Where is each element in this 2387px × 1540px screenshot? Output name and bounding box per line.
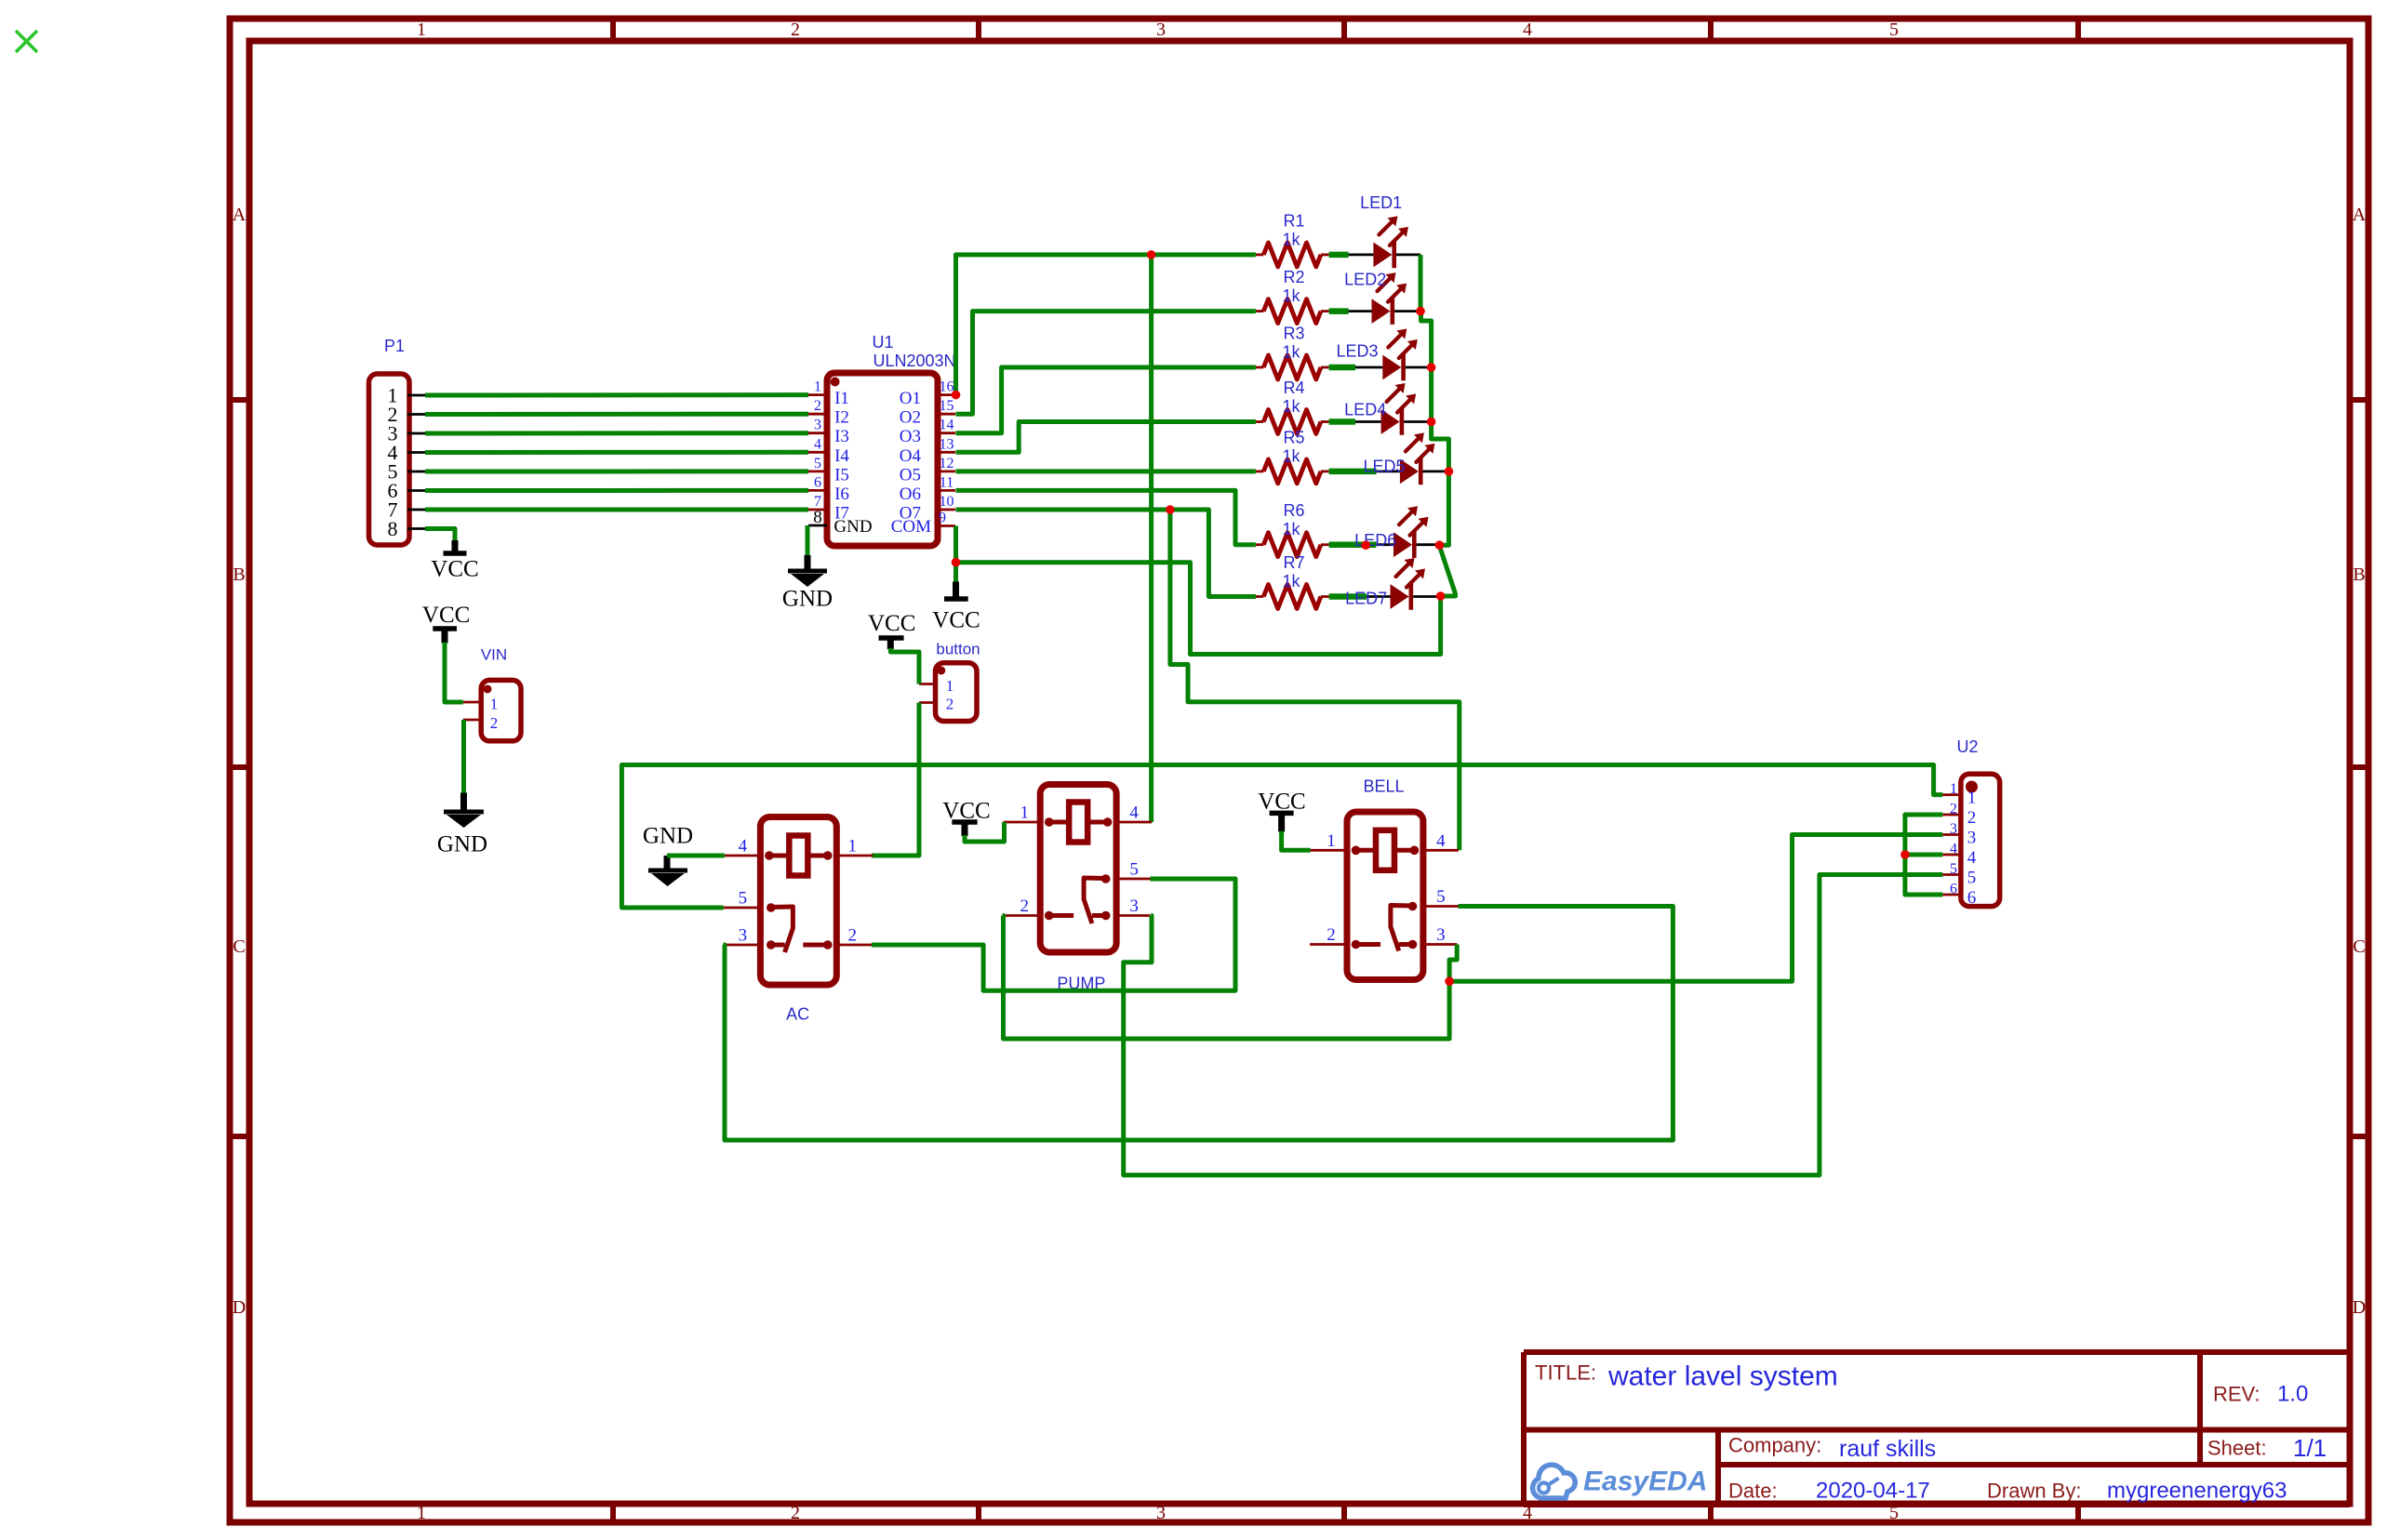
svg-text:3: 3 (1950, 821, 1957, 837)
U2 pin 6 (1942, 882, 1976, 909)
R7 label (1283, 553, 1304, 572)
svg-text:TITLE:: TITLE: (1535, 1361, 1596, 1385)
R4 value 1k (1282, 397, 1300, 416)
R4 label (1283, 378, 1304, 397)
title value 2020-04-17 (1816, 1479, 1930, 1504)
wire U2 pins 2-4-6 tie (1905, 815, 1942, 895)
wire U1.8 to GND (806, 525, 810, 556)
svg-text:3: 3 (739, 926, 748, 946)
svg-text:1: 1 (1950, 781, 1957, 797)
svg-text:1k: 1k (1282, 520, 1300, 538)
VIN pin 1 (463, 696, 498, 713)
wire LED2 to LED3 cathode (1421, 312, 1432, 367)
title field Sheet (2207, 1437, 2267, 1460)
svg-text:1k: 1k (1282, 230, 1300, 248)
resistor R2 1k (1256, 299, 1349, 324)
wire P1.8 to VCC (425, 529, 455, 542)
wire AC.3 to BELL.5 (724, 907, 1674, 1141)
svg-text:ULN2003N: ULN2003N (873, 352, 955, 370)
svg-text:I5: I5 (834, 465, 849, 485)
svg-text:water lavel system: water lavel system (1607, 1361, 1838, 1392)
LED1 (1349, 216, 1420, 268)
wire P1.3 to U1.I3 (425, 431, 808, 435)
resistor R7 1k (1256, 585, 1367, 609)
wire PUMP.3 to U2.5 (1124, 875, 1943, 1175)
VCC flag at button (868, 611, 915, 649)
column labels bottom 1-5 (417, 1503, 1899, 1523)
wire P1.1 to U1.I1 (425, 392, 808, 397)
svg-text:I1: I1 (834, 389, 849, 408)
junction node J4 (952, 558, 961, 567)
svg-text:4: 4 (1950, 842, 1957, 857)
svg-text:15: 15 (940, 398, 954, 414)
svg-text:U2: U2 (1956, 737, 1978, 756)
svg-text:5: 5 (1436, 887, 1446, 907)
svg-text:D: D (233, 1297, 246, 1318)
P1 label (384, 337, 405, 355)
connector U2 (1961, 774, 2000, 906)
svg-text:5: 5 (1129, 860, 1139, 880)
svg-text:R1: R1 (1283, 211, 1304, 230)
svg-text:A: A (2353, 205, 2367, 225)
svg-text:VCC: VCC (431, 557, 478, 582)
svg-text:O2: O2 (900, 408, 921, 428)
LED7 (1367, 558, 1441, 610)
svg-text:1k: 1k (1282, 343, 1300, 362)
svg-text:1: 1 (417, 20, 426, 40)
U1 pin 15 O2 (900, 398, 955, 428)
svg-text:D: D (2353, 1297, 2366, 1318)
wire P1.6 to U1.I6 (425, 488, 808, 493)
U2 pin 4 (1942, 842, 1976, 869)
LED4 (1355, 383, 1432, 435)
svg-text:3: 3 (1967, 829, 1977, 848)
wire COM junction to VCC (953, 563, 958, 583)
junction node J12 (1445, 976, 1454, 986)
svg-text:11: 11 (940, 474, 953, 490)
wire LED1 to LED2 cathode (1419, 255, 1423, 312)
svg-text:I4: I4 (834, 446, 849, 466)
svg-text:LED1: LED1 (1360, 193, 1402, 212)
wire P1.2 to U1.I2 (425, 412, 808, 417)
wire button.2 to AC.1 (872, 703, 919, 856)
svg-text:Company:: Company: (1728, 1434, 1821, 1457)
svg-text:1: 1 (1967, 789, 1977, 808)
svg-text:O5: O5 (900, 465, 921, 485)
svg-text:VCC: VCC (1258, 790, 1305, 815)
svg-text:O4: O4 (900, 446, 922, 466)
svg-text:U1: U1 (872, 333, 893, 352)
svg-text:3: 3 (1156, 1503, 1166, 1523)
row labels left A-D (233, 205, 247, 1318)
PUMP pins (1003, 803, 1152, 917)
wire GND to AC.4 (667, 854, 725, 858)
LED2 (1349, 272, 1421, 325)
svg-text:1: 1 (848, 837, 858, 856)
VCC flag at P1.8 (431, 540, 478, 582)
svg-text:1k: 1k (1282, 446, 1300, 465)
R1 value 1k (1282, 230, 1300, 248)
wire VCC to button.1 (890, 648, 919, 684)
wire P1.5 to U1.I5 (425, 469, 808, 473)
U1 pin 7 I7 (808, 494, 849, 524)
svg-text:5: 5 (739, 889, 748, 909)
wire junction to U2.3 (1449, 835, 1942, 982)
svg-text:3: 3 (1156, 20, 1166, 40)
wire VCC to VIN.1 (445, 643, 463, 703)
wire LED5 to LED6 cathode (1439, 471, 1448, 545)
wire O5 net: U1.12 to R5 (956, 469, 1256, 473)
U2 label (1956, 737, 1978, 756)
row tick marks right (2350, 400, 2368, 1136)
svg-text:Sheet:: Sheet: (2207, 1437, 2267, 1460)
U1 value ULN2003N (873, 352, 955, 370)
button label (936, 641, 980, 658)
svg-text:LED3: LED3 (1336, 342, 1378, 361)
BELL label (1363, 777, 1404, 796)
U2 pin 3 (1942, 821, 1976, 848)
junction node J6 (1427, 363, 1436, 372)
wire O4 net: U1.13 to R4 (956, 422, 1256, 453)
wire VCC to BELL.1 (1282, 831, 1311, 851)
wire O7 branch to BELL.4 (1170, 510, 1460, 850)
svg-text:O1: O1 (900, 389, 921, 408)
svg-text:10: 10 (940, 494, 954, 510)
svg-text:6: 6 (1967, 888, 1977, 908)
svg-text:VCC: VCC (932, 608, 980, 633)
junction node J10 (1361, 540, 1370, 550)
svg-text:3: 3 (1129, 896, 1139, 916)
svg-text:LED7: LED7 (1345, 589, 1387, 607)
svg-text:GND: GND (782, 587, 833, 612)
P1 pin 6 (388, 479, 426, 502)
IC U1 ULN2003N body (827, 373, 938, 546)
wire BELL.3 to junction (1449, 945, 1457, 982)
svg-text:2: 2 (1020, 896, 1029, 916)
connector VIN (481, 680, 521, 740)
svg-text:2: 2 (946, 696, 954, 713)
svg-text:8: 8 (813, 508, 822, 527)
svg-text:EasyEDA: EasyEDA (1583, 1467, 1707, 1497)
wire O2 net: U1.15 to R2 (956, 312, 1256, 415)
svg-text:GND: GND (833, 517, 872, 537)
svg-text:2: 2 (848, 926, 858, 946)
P1 pin 2 (388, 403, 426, 426)
svg-text:Date:: Date: (1728, 1480, 1778, 1503)
junction node J2 (1147, 250, 1156, 259)
svg-text:4: 4 (1967, 848, 1977, 868)
wire COM junction to LED7 cathode (956, 563, 1441, 655)
svg-text:4: 4 (1523, 20, 1532, 40)
P1 pin 7 (388, 498, 426, 522)
svg-text:LED2: LED2 (1344, 271, 1386, 289)
wire O3 net: U1.14 to R3 (956, 367, 1256, 433)
resistor R5 1k (1256, 459, 1377, 484)
title field Company (1728, 1434, 1821, 1457)
wire PUMP.2 to BELL.3 junction (1003, 916, 1450, 1040)
svg-text:4: 4 (739, 837, 748, 856)
svg-text:1k: 1k (1282, 572, 1300, 591)
U2 pin 2 (1942, 802, 1976, 829)
svg-text:BELL: BELL (1363, 777, 1404, 796)
AC label (786, 1005, 809, 1024)
svg-text:2: 2 (1967, 808, 1977, 828)
svg-text:14: 14 (940, 418, 954, 433)
AC pins (723, 837, 873, 946)
VCC flag at VIN (422, 603, 470, 644)
resistor R3 1k (1256, 355, 1355, 379)
button pin 1 (919, 677, 953, 695)
svg-text:5: 5 (814, 456, 821, 471)
resistor R6 1k (1256, 533, 1377, 557)
P1 pin 5 (388, 460, 426, 484)
wire O1 net: U1.16 up and to R1 (956, 255, 1256, 395)
svg-text:3: 3 (1436, 925, 1446, 945)
svg-text:VCC: VCC (868, 611, 915, 636)
svg-text:COM: COM (891, 517, 931, 537)
svg-text:1/1: 1/1 (2293, 1434, 2327, 1462)
wire LED3 to LED4 cathode (1429, 367, 1434, 422)
svg-text:6: 6 (1950, 882, 1957, 897)
svg-text:R3: R3 (1283, 325, 1304, 343)
junction node J1 (952, 391, 961, 400)
wire AC.5 to U2.1 (621, 765, 1942, 909)
junction node J11 (1436, 591, 1446, 601)
U2 pin 5 (1942, 861, 1976, 888)
svg-text:9: 9 (939, 511, 946, 526)
button pin 2 (919, 696, 953, 713)
svg-text:I2: I2 (834, 408, 849, 428)
LED2 label (1344, 271, 1386, 289)
svg-text:2: 2 (814, 398, 821, 414)
svg-text:R7: R7 (1283, 553, 1304, 572)
svg-text:1: 1 (946, 677, 954, 695)
svg-text:16: 16 (940, 379, 954, 395)
R5 value 1k (1282, 446, 1300, 465)
svg-text:5: 5 (1967, 869, 1977, 888)
svg-text:VIN: VIN (481, 646, 507, 664)
svg-text:R2: R2 (1283, 268, 1304, 286)
U1 pin 5 I5 (808, 456, 849, 485)
column labels top 1-5 (417, 20, 1899, 40)
relay PUMP (1040, 785, 1116, 953)
svg-text:13: 13 (940, 436, 954, 452)
svg-text:2020-04-17: 2020-04-17 (1816, 1479, 1930, 1504)
svg-text:LED6: LED6 (1354, 531, 1396, 550)
svg-text:GND: GND (437, 832, 487, 857)
connector button (936, 663, 978, 722)
title field TITLE (1535, 1361, 1596, 1385)
U1 label (872, 333, 893, 352)
relay AC (760, 817, 836, 986)
R6 value 1k (1282, 520, 1300, 538)
EasyEDA logo (1533, 1465, 1708, 1498)
resistor R4 1k (1256, 410, 1355, 434)
junction node J8 (1445, 467, 1454, 476)
svg-text:1: 1 (1327, 831, 1336, 851)
U1 pin 8 GND (808, 508, 873, 537)
VCC flag at PUMP.1 (942, 799, 990, 837)
U2 pin 1 (1942, 781, 1976, 808)
svg-text:12: 12 (940, 456, 954, 471)
U1 pin 9 COM (891, 511, 955, 538)
LED5 (1377, 432, 1449, 485)
LED1 label (1360, 193, 1402, 212)
svg-text:4: 4 (814, 436, 821, 452)
U1 pin 10 O7 (900, 494, 955, 524)
R3 value 1k (1282, 343, 1300, 362)
VCC flag at U1.9 COM (932, 582, 980, 633)
svg-text:5: 5 (1950, 861, 1957, 877)
U1 pin 16 O1 (900, 379, 955, 409)
svg-text:button: button (936, 641, 980, 658)
VIN label (481, 646, 507, 664)
row labels right A-D (2353, 205, 2367, 1318)
svg-text:R4: R4 (1283, 378, 1304, 397)
column tick marks bottom (613, 1504, 2078, 1522)
svg-text:R5: R5 (1283, 428, 1304, 446)
U1 pin 3 I3 (808, 418, 849, 447)
junction node J3 (1166, 505, 1175, 514)
junction node J9 (1435, 540, 1445, 550)
P1 pin 4 (388, 441, 426, 464)
junction node J13 (1900, 850, 1910, 859)
svg-text:1: 1 (490, 696, 499, 713)
svg-text:4: 4 (1436, 831, 1446, 851)
wire COM net: U1.9 down to junction (953, 526, 958, 563)
svg-text:6: 6 (814, 474, 821, 490)
svg-text:B: B (2353, 564, 2365, 585)
svg-text:2: 2 (1950, 802, 1957, 817)
svg-text:1: 1 (1020, 803, 1029, 823)
U1 pin 12 O5 (900, 456, 955, 485)
svg-text:R6: R6 (1283, 501, 1304, 520)
R3 label (1283, 325, 1304, 343)
svg-text:1k: 1k (1282, 397, 1300, 416)
P1 pin 1 (388, 384, 426, 407)
column tick marks top (613, 19, 2078, 41)
U1 pin 13 O4 (900, 436, 955, 466)
svg-text:3: 3 (814, 418, 821, 433)
connector P1 (369, 374, 410, 545)
R7 value 1k (1282, 572, 1300, 591)
svg-text:1.0: 1.0 (2277, 1382, 2308, 1407)
svg-text:LED4: LED4 (1344, 401, 1386, 419)
LED3 (1355, 329, 1432, 381)
wire O7 net: U1.10 to R7 (956, 510, 1256, 597)
svg-text:C: C (233, 936, 245, 957)
svg-text:2: 2 (791, 20, 800, 40)
wire O6 net: U1.11 to R6 (956, 490, 1256, 544)
title value rauf skills (1839, 1436, 1936, 1462)
svg-text:REV:: REV: (2213, 1383, 2260, 1406)
svg-text:LED5: LED5 (1363, 458, 1405, 476)
U1 pin 2 I2 (808, 398, 849, 428)
GND flag at AC.4 (643, 824, 693, 887)
wire VIN.2 to GND (461, 720, 466, 794)
title value water lavel system (1607, 1361, 1838, 1392)
R2 label (1283, 268, 1304, 286)
U1 pin 6 I6 (808, 474, 849, 504)
svg-text:2: 2 (1327, 925, 1336, 945)
svg-text:O3: O3 (900, 427, 921, 446)
svg-text:A: A (233, 205, 247, 225)
title block frame (1524, 1352, 2350, 1505)
svg-text:C: C (2353, 936, 2365, 957)
title value 1/1 (2293, 1434, 2327, 1462)
wire LED6 to LED7 cathode (1439, 546, 1455, 596)
wire VCC to PUMP.1 (965, 822, 1005, 842)
svg-text:1: 1 (814, 379, 821, 395)
svg-text:O6: O6 (900, 485, 921, 504)
U1 pin 14 O3 (900, 418, 955, 447)
svg-text:AC: AC (786, 1005, 809, 1024)
svg-text:2: 2 (490, 714, 499, 732)
svg-text:GND: GND (643, 824, 693, 849)
resistor R1 1k (1256, 243, 1349, 267)
title field Date (1728, 1480, 1778, 1503)
BELL pins (1310, 831, 1459, 945)
R2 value 1k (1282, 286, 1300, 305)
svg-text:1: 1 (417, 1503, 426, 1523)
svg-text:mygreenenergy63: mygreenenergy63 (2107, 1479, 2287, 1504)
title value mygreenenergy63 (2107, 1479, 2287, 1504)
wire O1 branch to PUMP.4 (1149, 255, 1153, 822)
svg-text:2: 2 (791, 1503, 800, 1523)
GND flag at VIN (437, 793, 487, 857)
LED6 (1376, 506, 1439, 558)
LED5 label (1363, 458, 1405, 476)
green X cursor mark (16, 31, 37, 52)
wire LED4 to LED5 cathode (1432, 422, 1449, 471)
junction node J5 (1416, 307, 1425, 316)
svg-text:I3: I3 (834, 427, 849, 446)
U1 pin 4 I4 (808, 436, 849, 466)
svg-text:5: 5 (1889, 20, 1899, 40)
title value 1.0 (2277, 1382, 2308, 1407)
PUMP label (1057, 975, 1105, 993)
junction node J7 (1427, 418, 1436, 427)
LED6 label (1354, 531, 1396, 550)
P1 pin 8 (388, 517, 426, 540)
GND flag at U1.8 (782, 555, 833, 612)
LED7 label (1345, 589, 1387, 607)
R5 label (1283, 428, 1304, 446)
U1 pin 11 O6 (900, 474, 955, 504)
LED4 label (1344, 401, 1386, 419)
svg-text:rauf skills: rauf skills (1839, 1436, 1936, 1462)
title field REV (2213, 1383, 2260, 1406)
svg-text:8: 8 (388, 517, 398, 540)
LED3 label (1336, 342, 1378, 361)
svg-text:Drawn By:: Drawn By: (1987, 1480, 2081, 1503)
row tick marks left (230, 400, 249, 1136)
wire P1.7 to U1.I7 (425, 508, 808, 512)
VIN pin 2 (463, 714, 498, 732)
VCC flag at BELL.1 (1258, 790, 1305, 832)
R1 label (1283, 211, 1304, 230)
relay BELL (1347, 812, 1423, 980)
R6 label (1283, 501, 1304, 520)
svg-text:B: B (233, 564, 245, 585)
svg-text:P1: P1 (384, 337, 405, 355)
P1 pin 3 (388, 422, 426, 445)
svg-text:I6: I6 (834, 485, 849, 504)
svg-text:VCC: VCC (422, 603, 470, 628)
svg-text:1k: 1k (1282, 286, 1300, 305)
title field Drawn By (1987, 1480, 2081, 1503)
wire AC.2 to PUMP.5 (872, 879, 1235, 990)
